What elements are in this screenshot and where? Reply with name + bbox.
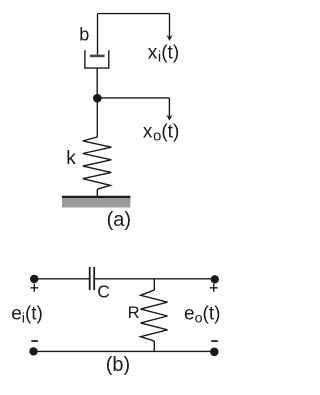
wire bottom (b) (34, 350, 215, 352)
wire node to arrow x_o (97, 97, 169, 99)
svg-text:(a): (a) (107, 209, 131, 231)
svg-text:xo(t): xo(t) (143, 122, 179, 145)
terminal dot bottom left (29, 347, 37, 355)
resistor R zigzag (141, 290, 168, 341)
damper piston (90, 55, 105, 58)
resistor stub top (153, 279, 155, 290)
wire spring to ground (96, 189, 98, 196)
capacitor C plate right (93, 267, 95, 290)
spring k (83, 137, 112, 189)
plus sign left (30, 284, 38, 292)
wire top left (b) (34, 278, 89, 280)
arrowhead x_o (166, 115, 172, 121)
capacitor C plate left (89, 267, 91, 290)
wire top right (b) (95, 278, 215, 280)
node junction (a) (93, 94, 102, 103)
svg-text:b: b (79, 25, 89, 45)
svg-text:k: k (66, 148, 76, 169)
terminal dot top right (211, 275, 219, 283)
wire top horizontal (a) (98, 13, 170, 15)
minus sign left (31, 340, 38, 342)
ground line (62, 196, 130, 198)
wire damper rod upper (97, 14, 99, 55)
svg-text:R: R (128, 304, 140, 322)
wire arrow stem x_i (169, 14, 171, 37)
wire arrow stem x_o (168, 98, 170, 117)
arrowhead x_i (166, 35, 172, 41)
svg-text:ei(t): ei(t) (11, 304, 43, 327)
svg-text:(b): (b) (106, 354, 130, 376)
plus sign right (210, 284, 218, 292)
damper cylinder (85, 50, 109, 68)
minus sign right (211, 340, 218, 342)
wire damper to node (96, 68, 98, 98)
wire node to spring (96, 98, 98, 137)
ground hatch bar (62, 198, 130, 208)
terminal dot top left (30, 275, 38, 283)
svg-text:xi(t): xi(t) (148, 43, 179, 66)
svg-text:C: C (97, 282, 110, 302)
resistor stub bottom (153, 341, 155, 351)
svg-text:eo(t): eo(t) (184, 304, 220, 327)
terminal dot bottom right (210, 348, 219, 357)
